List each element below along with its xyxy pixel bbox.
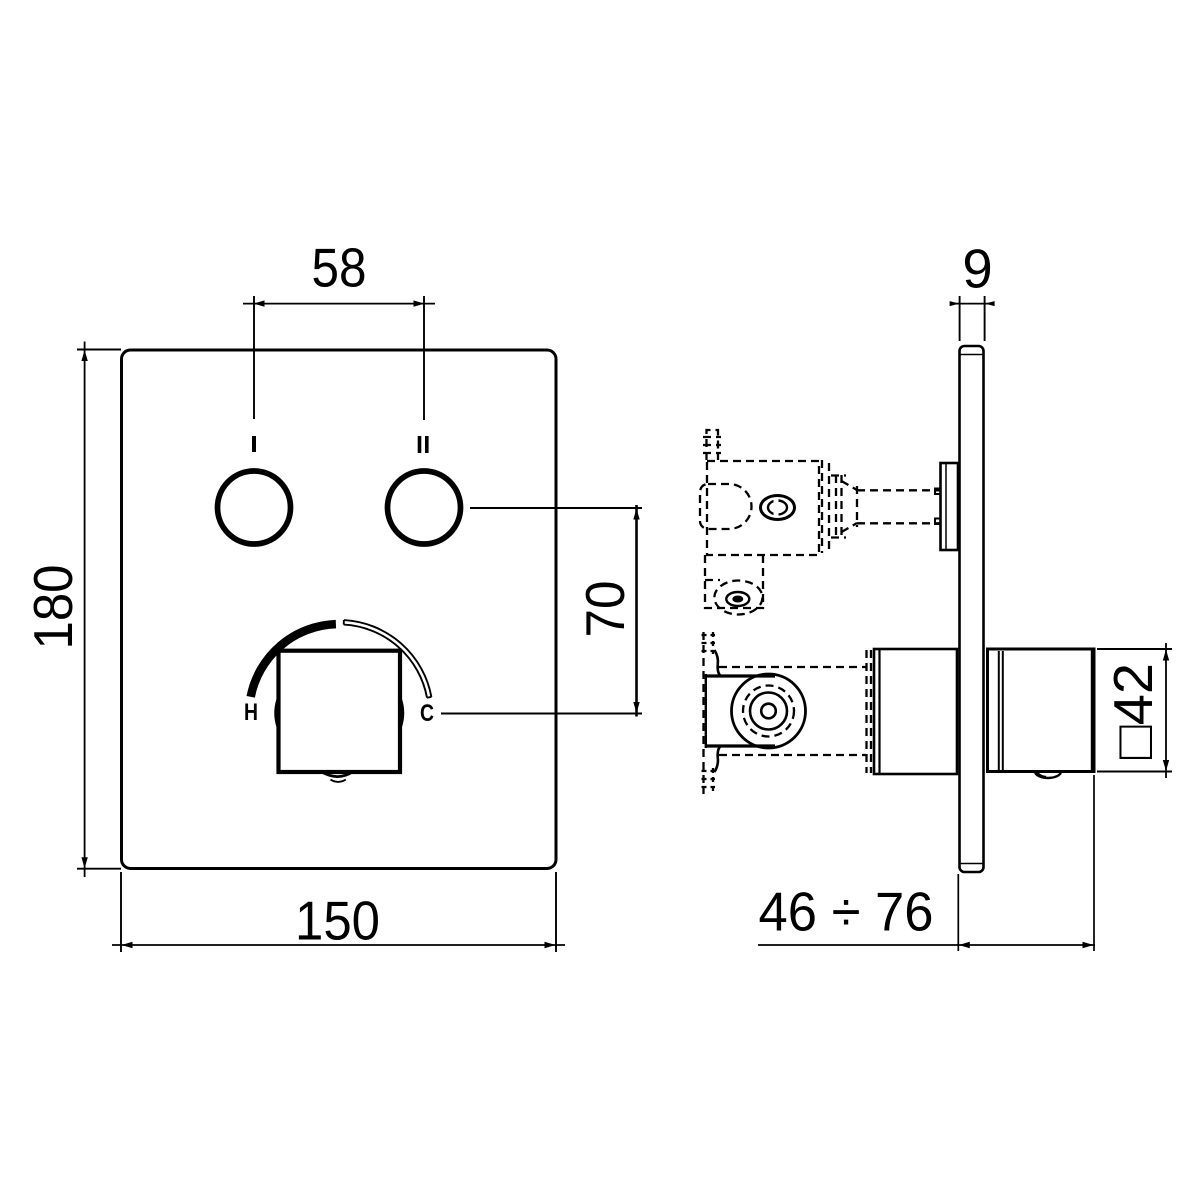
svg-text:C: C (420, 700, 434, 727)
svg-text:□42: □42 (1103, 663, 1164, 759)
svg-text:150: 150 (295, 891, 380, 952)
svg-text:46 ÷ 76: 46 ÷ 76 (759, 882, 934, 943)
svg-text:180: 180 (23, 565, 84, 650)
svg-text:58: 58 (312, 238, 367, 299)
svg-text:H: H (244, 699, 258, 726)
svg-text:9: 9 (962, 239, 992, 300)
svg-text:70: 70 (575, 581, 636, 638)
